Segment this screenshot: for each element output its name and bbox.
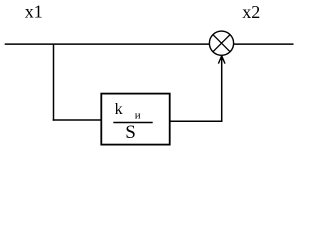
svg-text:x2: x2: [242, 2, 260, 22]
summing junction U1 circle: [209, 31, 233, 55]
svg-text:и: и: [135, 110, 141, 122]
wire: horizontal into integrator box: [53, 119, 102, 121]
fraction bar: [113, 122, 152, 124]
wire: out of box to the right: [170, 120, 223, 122]
svg-text:S: S: [125, 122, 136, 143]
wire: main horizontal signal line x1 to x2: [5, 43, 294, 45]
summing junction X diagonal 1: [213, 35, 230, 52]
arrowhead into summing junction: [218, 56, 225, 64]
svg-text:x1: x1: [25, 1, 43, 21]
wire: vertical up to summing junction: [221, 56, 223, 122]
summing junction X diagonal 2: [213, 35, 230, 52]
integrator block box: [101, 94, 169, 145]
svg-text:k: k: [115, 101, 123, 118]
wire: branch down from node at x=53: [53, 44, 55, 121]
